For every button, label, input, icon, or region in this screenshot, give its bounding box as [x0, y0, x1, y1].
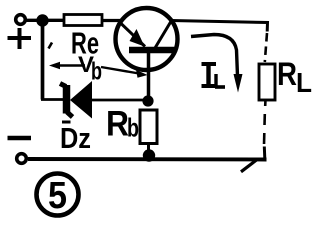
- label Rb: [106, 105, 139, 144]
- junction: bottom node: [143, 149, 155, 161]
- wire: corner overshoot tick: [241, 160, 257, 172]
- svg-text:R: R: [106, 105, 129, 144]
- wire: dashed RL to bottom corner: [264, 99, 266, 159]
- label −: [8, 136, 32, 141]
- wire: to zener: [41, 98, 63, 101]
- wire: + terminal to Re: [25, 19, 65, 22]
- svg-text:5: 5: [48, 175, 67, 217]
- terminal: positive input: [16, 15, 26, 25]
- junction: input node: [36, 14, 48, 26]
- label Vb with measurement arrows: [49, 52, 148, 86]
- figure number 5: [37, 174, 79, 218]
- wire: bottom rail: [28, 157, 267, 161]
- wire: left vertical from input node: [41, 24, 45, 100]
- svg-text:b: b: [91, 58, 102, 86]
- wire: Re to transistor: [101, 19, 122, 22]
- svg-text:Dz: Dz: [60, 123, 91, 155]
- wire: dashed drop to RL: [265, 33, 267, 62]
- wire: zener to base node: [92, 99, 145, 102]
- zener diode Dz: [60, 81, 92, 122]
- transistor Q1: [116, 8, 178, 97]
- wire: collector to top-right corner: [171, 21, 268, 32]
- label IL with load-current arrow: [191, 35, 243, 93]
- terminal: negative output: [17, 154, 27, 164]
- resistor Re: [64, 15, 102, 26]
- label +: [8, 28, 53, 49]
- resistor Rb: [140, 110, 157, 144]
- resistor RL: [259, 64, 275, 100]
- junction: base node: [142, 95, 153, 106]
- wire: Rb to bottom rail: [147, 143, 150, 152]
- label RL: [277, 56, 312, 98]
- svg-text:L: L: [296, 67, 312, 98]
- svg-text:b: b: [127, 113, 139, 143]
- svg-text:R: R: [277, 56, 297, 92]
